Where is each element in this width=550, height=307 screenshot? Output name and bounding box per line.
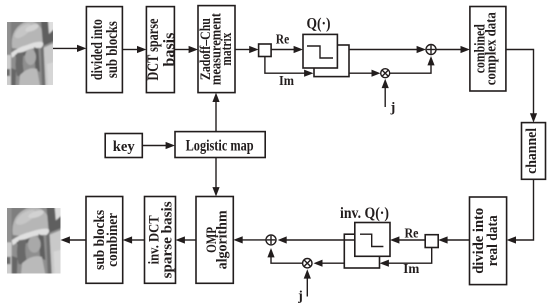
wire: multiplier left and up to adder (bottom) bbox=[267, 248, 302, 263]
block: combined complex data bbox=[470, 7, 506, 92]
inverse quantizer front box with staircase bbox=[355, 223, 390, 257]
wire: inv DCT to sub blocks combiner bbox=[123, 236, 145, 243]
svg-text:combiner: combiner bbox=[105, 213, 121, 267]
wire: key to Logistic map bbox=[142, 142, 175, 149]
svg-text:key: key bbox=[113, 139, 135, 155]
original image (Lena) bbox=[6, 21, 54, 86]
inverse quantizer back box bbox=[344, 234, 379, 268]
wire: Re to quantizer Q bbox=[271, 46, 303, 53]
label Re (top) bbox=[276, 32, 290, 47]
wire: Im path from bottom splitter down and left bbox=[380, 248, 432, 267]
label Im (bottom) bbox=[403, 261, 420, 276]
block: OMP algorithm bbox=[196, 197, 233, 284]
wire: inverse quantizer real output to adder (bottom) bbox=[278, 236, 355, 243]
label j (top) bbox=[390, 101, 396, 116]
wire: divided to DCT sparse basis bbox=[122, 46, 146, 53]
block: key bbox=[105, 134, 142, 158]
wire: inverse quantizer imaginary output to multiplier (bottom) bbox=[314, 260, 345, 267]
wire: adder to OMP algorithm bbox=[233, 236, 266, 243]
svg-text:sparse basis: sparse basis bbox=[159, 201, 175, 278]
wire: Zadoff-Chu to splitter node bbox=[235, 46, 259, 53]
label j (bottom) bbox=[297, 289, 303, 304]
wire: j into multiplier (bottom) bbox=[304, 269, 311, 296]
block: channel bbox=[522, 123, 546, 180]
multiplier (x) top bbox=[381, 69, 390, 78]
svg-text:Im: Im bbox=[279, 73, 295, 88]
svg-text:Re: Re bbox=[276, 32, 290, 47]
wire: adder to combined complex data bbox=[436, 46, 470, 53]
block: sub blocks combiner bbox=[86, 197, 123, 284]
svg-text:Re: Re bbox=[405, 225, 419, 240]
wire: Re into inverse quantizer bbox=[390, 236, 425, 243]
svg-text:DCT sparse: DCT sparse bbox=[145, 19, 162, 81]
svg-text:real data: real data bbox=[485, 215, 501, 266]
quantizer Q front box with staircase bbox=[303, 34, 337, 68]
block: Zadoff-Chu measurement matrix bbox=[198, 6, 235, 93]
node: splitter square (Re/Im separation) bbox=[259, 44, 272, 57]
wire: OMP to inv DCT bbox=[176, 236, 197, 243]
adder (+) top bbox=[426, 45, 436, 55]
wire: channel to divide into real data bbox=[507, 179, 534, 243]
wire: Im path from splitter down and right to quantizer back box bbox=[265, 57, 314, 77]
wire: Q real output to adder bbox=[349, 46, 426, 53]
svg-text:inv. Q(·): inv. Q(·) bbox=[340, 205, 389, 222]
svg-text:j: j bbox=[297, 289, 303, 304]
svg-text:sub blocks: sub blocks bbox=[104, 21, 121, 78]
wire: combiner to reconstructed image bbox=[61, 236, 87, 243]
node: splitter square (bottom) bbox=[425, 235, 438, 248]
label inv. Q(.) bbox=[340, 205, 389, 222]
wire: Logistic map up to Zadoff-Chu bbox=[212, 93, 219, 132]
svg-text:Logistic map: Logistic map bbox=[186, 137, 254, 154]
wire: divide block to splitter node (bottom) bbox=[438, 236, 469, 243]
wire: j into multiplier (top) bbox=[382, 79, 389, 107]
svg-text:j: j bbox=[390, 101, 396, 116]
block: divided into sub blocks bbox=[86, 7, 122, 93]
reconstructed image (Lena) bbox=[6, 207, 62, 275]
block: Logistic map bbox=[175, 132, 265, 158]
label Im (top) bbox=[279, 73, 295, 88]
svg-text:channel: channel bbox=[524, 128, 540, 174]
svg-text:matrix: matrix bbox=[219, 32, 235, 66]
label Q(.) bbox=[307, 16, 331, 33]
quantizer Q back box bbox=[314, 45, 349, 77]
wire: Logistic map down to OMP bbox=[212, 158, 219, 197]
wire: Q imaginary output to multiplier bbox=[349, 70, 381, 77]
block: inv. DCT sparse basis bbox=[145, 197, 176, 284]
wire: original image to divided-into-sub-blocks bbox=[53, 45, 86, 52]
wire: multiplier up to adder (top) bbox=[390, 56, 435, 73]
svg-text:algorithm: algorithm bbox=[215, 210, 231, 269]
svg-text:Q(·): Q(·) bbox=[307, 16, 331, 33]
block: DCT sparse basis bbox=[145, 7, 178, 93]
adder (+) bottom bbox=[266, 235, 276, 245]
label Re (bottom) bbox=[405, 225, 419, 240]
multiplier (x) bottom bbox=[303, 259, 312, 268]
svg-text:Im: Im bbox=[403, 261, 420, 276]
wire: combined data to channel bbox=[506, 50, 537, 123]
wire: DCT to Zadoff-Chu bbox=[174, 46, 198, 53]
block: divide into real data bbox=[470, 197, 507, 285]
svg-text:complex data: complex data bbox=[484, 12, 500, 85]
